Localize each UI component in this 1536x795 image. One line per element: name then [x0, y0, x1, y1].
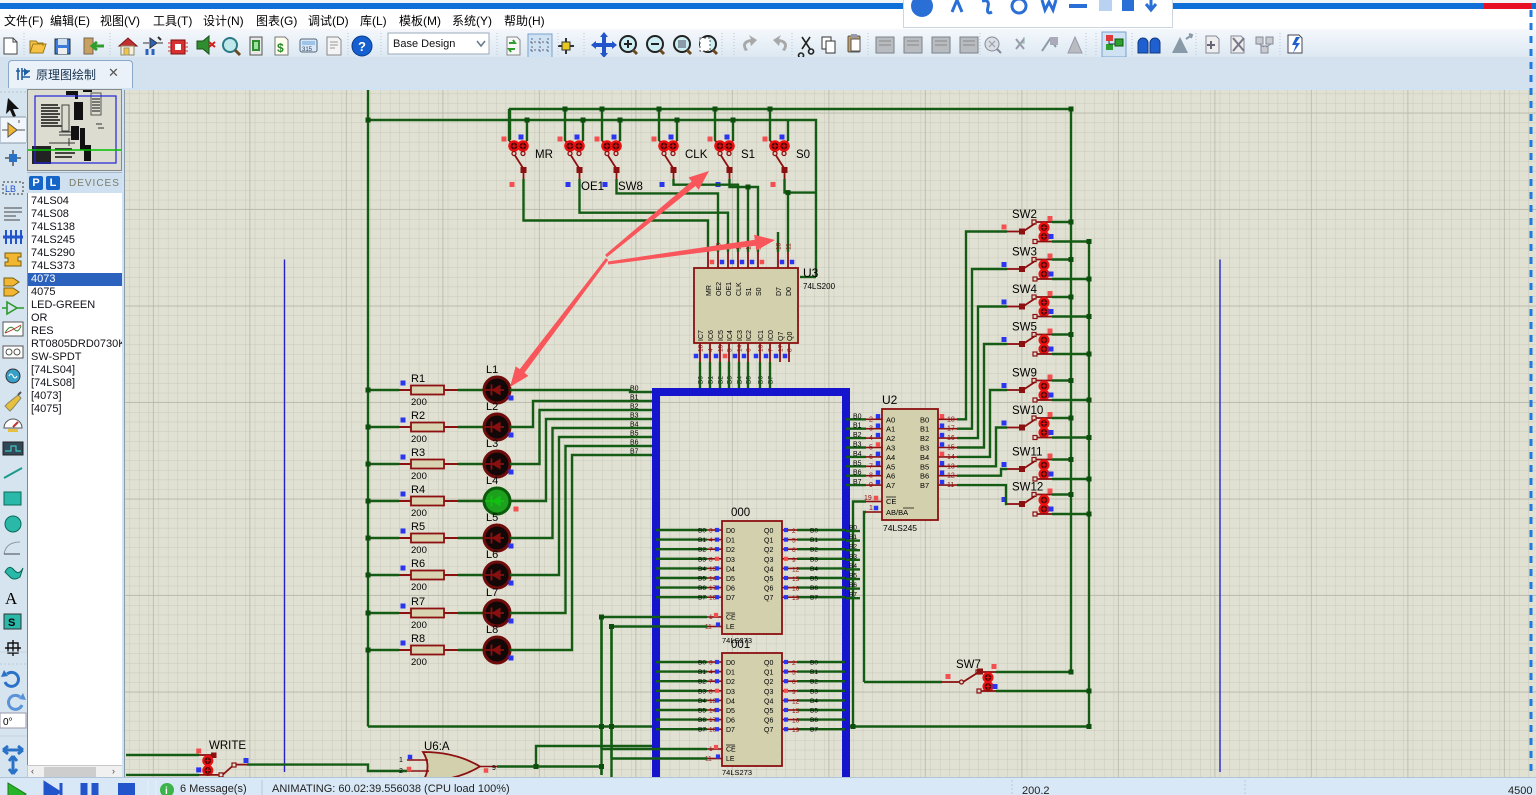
svg-text:B7: B7 — [698, 595, 706, 602]
svg-text:74LS273: 74LS273 — [722, 768, 752, 777]
svg-text:D4: D4 — [726, 698, 735, 705]
svg-text:A: A — [5, 589, 18, 608]
op IC U3 74LS299 body — [694, 266, 836, 343]
svg-text:B6: B6 — [630, 440, 639, 447]
svg-text:18: 18 — [698, 344, 705, 352]
sheet border left — [284, 260, 286, 773]
wire gate output — [497, 765, 602, 767]
svg-text:15: 15 — [718, 344, 725, 352]
LED L3 — [458, 438, 514, 477]
switch SW2 — [1002, 209, 1092, 244]
wire SW9 to U2 — [957, 390, 1007, 457]
right window dashed edge — [1527, 88, 1536, 777]
switch SW12 — [1002, 482, 1092, 517]
svg-text:19: 19 — [792, 727, 800, 734]
svg-text:B3: B3 — [698, 556, 706, 563]
svg-text:7: 7 — [869, 463, 873, 470]
schematic canvas — [122, 88, 1536, 777]
svg-text:IC0: IC0 — [768, 330, 775, 341]
svg-text:7: 7 — [709, 679, 713, 686]
svg-text:6 Message(s): 6 Message(s) — [180, 783, 247, 795]
svg-text:B5: B5 — [849, 573, 857, 580]
svg-text:B2: B2 — [853, 432, 862, 439]
svg-text:A1: A1 — [886, 425, 895, 434]
P L DEVICES header — [27, 172, 122, 194]
resistor R1 — [399, 373, 458, 408]
svg-text:B7: B7 — [853, 479, 862, 486]
wire rail to R6 — [368, 574, 399, 576]
wire SW10 to U2 — [957, 428, 1007, 467]
svg-text:D3: D3 — [726, 689, 735, 696]
LED L7 — [458, 587, 514, 626]
svg-text:B5: B5 — [810, 576, 818, 583]
svg-text:B4: B4 — [810, 566, 818, 573]
svg-text:Q1: Q1 — [764, 670, 773, 677]
svg-text:L7: L7 — [486, 587, 498, 599]
svg-text:Q0: Q0 — [764, 660, 773, 667]
svg-text:5: 5 — [869, 445, 873, 452]
svg-text:11: 11 — [786, 243, 793, 250]
svg-text:CLK: CLK — [736, 282, 743, 296]
canvas paper — [124, 90, 1536, 777]
svg-text:IC7: IC7 — [698, 330, 705, 341]
svg-text:5: 5 — [792, 538, 796, 545]
svg-text:LB: LB — [5, 184, 16, 194]
wire SW11 to U2 — [957, 469, 1007, 476]
wire SW4 to U2 — [957, 307, 1007, 439]
svg-text:2: 2 — [792, 660, 796, 667]
junction bus2-x368 — [366, 118, 371, 123]
wire rail to R4 — [368, 500, 399, 502]
switch SW8 — [595, 135, 643, 194]
svg-text:17: 17 — [778, 344, 785, 352]
switch SW7 — [864, 659, 1092, 694]
wire L8 to subsheet — [510, 455, 656, 650]
svg-text:U3: U3 — [803, 266, 819, 280]
sheet border right — [1219, 260, 1221, 773]
svg-text:8: 8 — [709, 688, 713, 695]
svg-text:Q7: Q7 — [764, 595, 773, 602]
svg-text:B1: B1 — [849, 534, 857, 541]
svg-text:B7: B7 — [810, 595, 818, 602]
U2 CE pin — [866, 501, 882, 503]
svg-text:B6: B6 — [849, 582, 857, 589]
svg-text:B4: B4 — [630, 422, 639, 429]
svg-text:000: 000 — [731, 507, 750, 519]
svg-text:Q7: Q7 — [764, 727, 773, 734]
resistor R5 — [399, 521, 458, 556]
wire rail to R8 — [368, 649, 399, 651]
svg-text:SW2: SW2 — [1012, 209, 1037, 221]
svg-text:A2: A2 — [886, 434, 895, 443]
svg-text:B6: B6 — [698, 717, 706, 724]
svg-text:WRITE: WRITE — [209, 740, 246, 752]
svg-text:A0: A0 — [886, 415, 895, 424]
svg-text:IC6: IC6 — [708, 330, 715, 341]
svg-text:16: 16 — [947, 435, 955, 442]
wire rail to R5 — [368, 537, 399, 539]
svg-text:ANIMATING: 60.02:39.556038 (CP: ANIMATING: 60.02:39.556038 (CPU load 100… — [272, 783, 510, 795]
wires U3 bottom into subsheet — [699, 362, 701, 390]
svg-text:D7: D7 — [726, 595, 735, 602]
wire WRITE to gate — [247, 765, 407, 771]
svg-text:SW5: SW5 — [1012, 322, 1037, 334]
wire L2 to subsheet — [510, 401, 656, 427]
svg-text:B5: B5 — [810, 708, 818, 715]
wire MR to U3 — [524, 179, 709, 252]
resistor R3 — [399, 447, 458, 482]
svg-text:MR: MR — [535, 149, 553, 161]
svg-text:74LS245: 74LS245 — [883, 523, 917, 533]
svg-text:14: 14 — [737, 344, 744, 352]
svg-text:IC2: IC2 — [746, 330, 753, 341]
wires bus drops to switches — [508, 109, 510, 141]
svg-text:200: 200 — [411, 582, 427, 593]
list h-scrollbar — [27, 765, 123, 781]
svg-text:S1: S1 — [741, 149, 755, 161]
svg-text:D7: D7 — [726, 727, 735, 734]
svg-text:1: 1 — [399, 757, 403, 764]
svg-text:D6: D6 — [726, 586, 735, 593]
annotation arrow to L1 — [510, 258, 608, 387]
wire SW2 to U2 — [957, 232, 1007, 420]
svg-text:R3: R3 — [411, 447, 425, 459]
svg-text:B0: B0 — [849, 525, 857, 532]
svg-text:B3: B3 — [853, 442, 862, 449]
switch SW5 — [1002, 322, 1092, 357]
svg-text:$: $ — [277, 41, 284, 55]
svg-text:4: 4 — [708, 348, 715, 352]
svg-text:B5: B5 — [698, 576, 706, 583]
LED L5 — [458, 512, 514, 551]
svg-text:CLK: CLK — [685, 149, 708, 161]
svg-text:B2: B2 — [810, 679, 818, 686]
svg-text:6: 6 — [869, 454, 873, 461]
devices list — [27, 193, 122, 765]
svg-text:15: 15 — [792, 576, 800, 583]
svg-text:200: 200 — [411, 397, 427, 408]
svg-text:D5: D5 — [726, 708, 735, 715]
svg-text:6: 6 — [746, 348, 753, 352]
svg-text:B1: B1 — [853, 423, 862, 430]
svg-text:4: 4 — [709, 537, 713, 544]
svg-text:B5: B5 — [920, 462, 929, 471]
title bar blue — [0, 3, 1536, 9]
svg-text:Q3: Q3 — [764, 689, 773, 696]
svg-text:Q0: Q0 — [787, 332, 794, 341]
svg-text:SW10: SW10 — [1012, 405, 1043, 417]
register chip 001 74LS273 — [656, 639, 845, 777]
svg-text:D2: D2 — [726, 679, 735, 686]
preview window — [27, 88, 122, 172]
svg-text:B7: B7 — [810, 727, 818, 734]
svg-text:A6: A6 — [886, 472, 895, 481]
svg-text:B5: B5 — [853, 460, 862, 467]
svg-text:S: S — [8, 617, 15, 629]
svg-text:B1: B1 — [810, 537, 818, 544]
svg-text:B6: B6 — [698, 585, 706, 592]
close button red segment — [1484, 3, 1531, 9]
svg-text:B7: B7 — [698, 727, 706, 734]
wire top bus2 y120 — [368, 120, 816, 277]
svg-text:L5: L5 — [486, 512, 498, 524]
svg-text:B2: B2 — [698, 547, 706, 554]
svg-text:Q5: Q5 — [764, 576, 773, 583]
svg-text:B3: B3 — [920, 444, 929, 453]
svg-text:315: 315 — [302, 47, 313, 53]
svg-text:SW3: SW3 — [1012, 247, 1037, 259]
svg-text:B1: B1 — [920, 425, 929, 434]
svg-text:R8: R8 — [411, 633, 425, 645]
svg-text:Q5: Q5 — [764, 708, 773, 715]
svg-text:9: 9 — [792, 689, 796, 696]
wire rail to R7 — [368, 612, 399, 614]
svg-text:D2: D2 — [726, 547, 735, 554]
svg-text:0°: 0° — [3, 717, 13, 728]
svg-text:17: 17 — [947, 426, 955, 433]
register chip 000 74LS273 — [656, 507, 845, 645]
svg-text:13: 13 — [947, 463, 955, 470]
svg-text:D1: D1 — [726, 538, 735, 545]
LED L2 — [458, 401, 514, 440]
svg-text:Q6: Q6 — [764, 718, 773, 725]
svg-text:S0: S0 — [796, 149, 810, 161]
wire D7 stub — [777, 232, 779, 252]
svg-text:LE: LE — [726, 756, 735, 763]
switch CLK — [652, 135, 708, 188]
svg-text:LE: LE — [726, 624, 735, 631]
svg-text:B6: B6 — [810, 585, 818, 592]
svg-text:D6: D6 — [726, 718, 735, 725]
svg-text:74LS200: 74LS200 — [803, 282, 836, 291]
wire LE chain — [612, 627, 708, 795]
wire S0 branch to bus2 drop — [788, 191, 816, 193]
title bar top strip — [0, 0, 1536, 3]
svg-text:B0: B0 — [698, 528, 706, 535]
svg-text:200: 200 — [411, 508, 427, 519]
svg-text:CE: CE — [886, 497, 896, 506]
svg-text:D1: D1 — [726, 670, 735, 677]
switch SW3 — [1002, 247, 1092, 282]
svg-text:B2: B2 — [920, 434, 929, 443]
svg-text:SW12: SW12 — [1012, 482, 1043, 494]
svg-text:12: 12 — [792, 566, 800, 573]
right edge dashes upper — [1527, 10, 1536, 88]
svg-text:Q7: Q7 — [778, 332, 785, 341]
status bar — [0, 777, 1536, 795]
svg-text:AB/BA: AB/BA — [886, 508, 908, 517]
svg-text:13: 13 — [758, 344, 765, 352]
svg-text:9: 9 — [492, 765, 496, 772]
U3 top pins — [706, 242, 795, 296]
svg-text:B0: B0 — [810, 528, 818, 535]
svg-text:B1: B1 — [630, 395, 639, 402]
svg-text:200: 200 — [411, 657, 427, 668]
svg-text:SW8: SW8 — [618, 181, 643, 193]
menu bar — [0, 9, 1536, 29]
svg-text:Q2: Q2 — [764, 547, 773, 554]
svg-text:D0: D0 — [726, 660, 735, 667]
LED L4 — [458, 475, 519, 514]
svg-text:B7: B7 — [630, 449, 639, 456]
svg-text:7: 7 — [768, 348, 775, 352]
svg-text:2: 2 — [869, 416, 873, 423]
svg-text:SW4: SW4 — [1012, 284, 1038, 296]
resistor R2 — [399, 410, 458, 445]
U2 right pins — [920, 414, 957, 490]
transceiver U2 74LS245 body — [882, 393, 938, 533]
svg-text:200: 200 — [411, 434, 427, 445]
svg-text:D7: D7 — [776, 287, 783, 296]
svg-text:L4: L4 — [486, 475, 498, 487]
svg-text:200: 200 — [411, 620, 427, 631]
svg-text:B4: B4 — [849, 563, 857, 570]
wire L5 to subsheet — [510, 428, 656, 538]
svg-text:D5: D5 — [726, 576, 735, 583]
svg-text:6: 6 — [792, 679, 796, 686]
svg-text:14: 14 — [947, 454, 955, 461]
resistor R7 — [399, 596, 458, 631]
wire CLK to U3 — [674, 179, 739, 252]
svg-text:R2: R2 — [411, 410, 425, 422]
wire U2 CE down — [853, 502, 866, 727]
svg-text:2: 2 — [792, 528, 796, 535]
svg-text:SW9: SW9 — [1012, 368, 1037, 380]
svg-text:D0: D0 — [786, 287, 793, 296]
wire left vertical bus x368 — [367, 90, 369, 727]
subsheet right-side stubs — [846, 530, 860, 532]
svg-text:B5: B5 — [698, 708, 706, 715]
svg-text:S0: S0 — [756, 287, 763, 296]
svg-text:Q3: Q3 — [764, 557, 773, 564]
junction gate output — [599, 764, 604, 769]
svg-text:19: 19 — [792, 595, 800, 602]
svg-text:A5: A5 — [886, 462, 895, 471]
wire L3 to subsheet — [510, 410, 656, 464]
or-gate U6:A — [399, 741, 497, 784]
svg-text:18: 18 — [947, 416, 955, 423]
svg-text:B3: B3 — [849, 553, 857, 560]
svg-text:18: 18 — [776, 242, 783, 250]
svg-text:5: 5 — [792, 670, 796, 677]
svg-text:4: 4 — [869, 435, 873, 442]
main toolbar — [0, 29, 1536, 58]
svg-text:B4: B4 — [698, 566, 706, 573]
svg-text:OE1: OE1 — [726, 282, 733, 296]
U2 ABBA pin — [866, 511, 882, 513]
wire U2 ABBA down — [864, 512, 866, 682]
switch SW11 — [1002, 447, 1092, 482]
svg-text:200: 200 — [411, 471, 427, 482]
svg-text:OE2: OE2 — [716, 282, 723, 296]
svg-text:001: 001 — [731, 639, 750, 651]
subsheet block border — [656, 392, 846, 792]
wire L6 to subsheet — [510, 437, 656, 575]
annotation arrow to U3 pins — [608, 235, 775, 265]
wire SW12 to U2 — [957, 485, 1007, 504]
wire rail to R3 — [368, 463, 399, 465]
svg-text:IC5: IC5 — [718, 330, 725, 341]
svg-text:12: 12 — [947, 473, 955, 480]
svg-text:2: 2 — [399, 768, 403, 775]
svg-text:B2: B2 — [849, 544, 857, 551]
svg-text:U2: U2 — [882, 393, 898, 407]
svg-text:R1: R1 — [411, 373, 425, 385]
wire SW5 to U2 — [957, 344, 1007, 448]
svg-text:9: 9 — [869, 482, 873, 489]
svg-text:Q0: Q0 — [764, 528, 773, 535]
svg-text:L1: L1 — [486, 364, 498, 376]
svg-text:B7: B7 — [849, 592, 857, 599]
svg-text:12: 12 — [792, 698, 800, 705]
switch S0 — [763, 135, 811, 188]
svg-text:CE: CE — [726, 615, 736, 622]
svg-text:A3: A3 — [886, 444, 895, 453]
svg-text:?: ? — [358, 39, 366, 54]
wire bottom bus y726 — [368, 725, 655, 727]
svg-text:B0: B0 — [698, 660, 706, 667]
svg-text:3: 3 — [709, 528, 713, 535]
wire right vertical x1071 — [1070, 109, 1072, 672]
svg-text:5: 5 — [727, 348, 734, 352]
svg-text:Q6: Q6 — [764, 586, 773, 593]
resistor R6 — [399, 558, 458, 593]
svg-text:B2: B2 — [810, 547, 818, 554]
LED L1 — [458, 364, 514, 403]
switch MR — [502, 135, 553, 188]
floating capture toolbar — [903, 0, 1173, 28]
annotation arrow to S1 — [605, 171, 709, 257]
svg-text:1: 1 — [709, 614, 713, 621]
svg-text:B1: B1 — [698, 537, 706, 544]
svg-text:R5: R5 — [411, 521, 425, 533]
svg-text:D3: D3 — [726, 557, 735, 564]
left tool column — [0, 88, 28, 777]
switch SW4 — [1002, 284, 1092, 319]
svg-text:16: 16 — [792, 718, 800, 725]
svg-text:1: 1 — [709, 746, 713, 753]
svg-text:L8: L8 — [486, 624, 498, 636]
svg-text:MR: MR — [706, 285, 713, 296]
svg-text:A7: A7 — [886, 481, 895, 490]
wire L4 to subsheet — [510, 419, 656, 501]
svg-text:Q4: Q4 — [764, 698, 773, 705]
svg-text:D0: D0 — [726, 528, 735, 535]
tab bar — [0, 57, 1536, 89]
switch WRITE — [126, 740, 249, 777]
svg-text:R4: R4 — [411, 484, 425, 496]
svg-text:L2: L2 — [486, 401, 498, 413]
resistor R8 — [399, 633, 458, 668]
wire right vertical x1089 — [1088, 242, 1090, 727]
svg-text:B0: B0 — [920, 415, 929, 424]
LED L8 — [458, 624, 514, 663]
svg-text:B4: B4 — [920, 453, 929, 462]
svg-text:15: 15 — [792, 708, 800, 715]
switch S1 — [708, 135, 756, 188]
svg-text:R7: R7 — [411, 596, 425, 608]
svg-text:IC4: IC4 — [727, 330, 734, 341]
wire OE1 to U3 — [580, 179, 729, 252]
svg-text:Q2: Q2 — [764, 679, 773, 686]
canvas left edge — [124, 90, 126, 777]
svg-text:B1: B1 — [698, 669, 706, 676]
switch SW10 — [1002, 405, 1092, 440]
svg-text:IC3: IC3 — [737, 330, 744, 341]
svg-text:B0: B0 — [853, 413, 862, 420]
svg-text:4: 4 — [709, 669, 713, 676]
svg-text:L6: L6 — [486, 549, 498, 561]
